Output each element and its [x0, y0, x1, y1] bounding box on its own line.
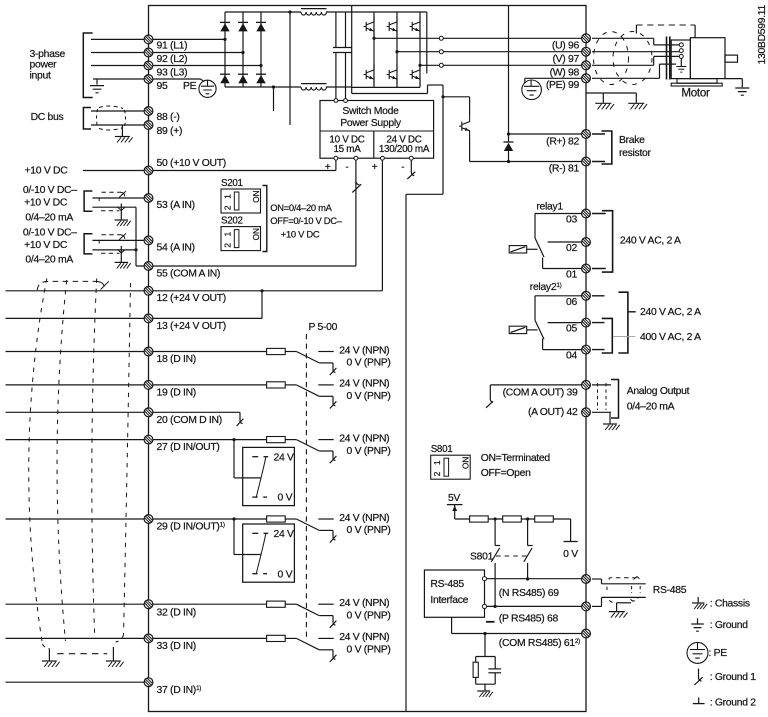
- svg-text:95: 95: [157, 81, 168, 92]
- svg-text:0 V: 0 V: [278, 569, 293, 580]
- svg-text:Switch Mode: Switch Mode: [342, 106, 399, 117]
- svg-text:91 (L1): 91 (L1): [157, 41, 188, 52]
- svg-text:15 mA: 15 mA: [333, 144, 361, 155]
- svg-text:240 V AC, 2 A: 240 V AC, 2 A: [640, 307, 701, 318]
- svg-text:S801: S801: [470, 552, 494, 563]
- svg-text:05: 05: [566, 324, 577, 335]
- svg-text:+10 V DC: +10 V DC: [281, 228, 320, 239]
- svg-text:Interface: Interface: [430, 595, 468, 606]
- svg-text:-: -: [345, 162, 348, 173]
- svg-text:(COM A OUT) 39: (COM A OUT) 39: [503, 388, 578, 399]
- svg-text:24 V: 24 V: [274, 529, 295, 540]
- svg-text:29 (D IN/OUT)1): 29 (D IN/OUT)1): [157, 522, 225, 533]
- svg-text:0/-10 V DC–: 0/-10 V DC–: [23, 185, 77, 196]
- svg-text:(R-) 81: (R-) 81: [549, 164, 580, 175]
- svg-text:0 V (PNP): 0 V (PNP): [347, 446, 391, 457]
- svg-text:ON=0/4–20 mA: ON=0/4–20 mA: [270, 202, 332, 213]
- svg-text:06: 06: [566, 297, 577, 308]
- svg-text:0/4–20 mA: 0/4–20 mA: [25, 212, 73, 223]
- svg-text:1: 1: [432, 460, 442, 465]
- svg-text:2: 2: [432, 471, 442, 476]
- svg-text:2: 2: [222, 243, 232, 248]
- svg-text:2: 2: [222, 205, 232, 210]
- svg-text:3-phase: 3-phase: [30, 49, 66, 60]
- svg-text:12 (+24 V OUT): 12 (+24 V OUT): [157, 293, 226, 304]
- svg-text:ON: ON: [252, 228, 261, 240]
- svg-text:: PE: : PE: [709, 648, 728, 659]
- svg-text:01: 01: [566, 270, 577, 281]
- svg-text:400 V AC, 2 A: 400 V AC, 2 A: [640, 332, 701, 343]
- svg-text:0 V (PNP): 0 V (PNP): [347, 391, 391, 402]
- svg-text:0 V (PNP): 0 V (PNP): [347, 358, 391, 369]
- svg-text:input: input: [30, 71, 51, 82]
- svg-text:19 (D IN): 19 (D IN): [157, 388, 196, 399]
- svg-text:53 (A IN): 53 (A IN): [157, 200, 195, 211]
- svg-text:(V) 97: (V) 97: [553, 54, 580, 65]
- svg-text:(A OUT) 42: (A OUT) 42: [528, 407, 578, 418]
- svg-text:(R+) 82: (R+) 82: [546, 136, 579, 147]
- svg-text:50 (+10 V OUT): 50 (+10 V OUT): [157, 158, 226, 169]
- svg-text:relay1: relay1: [536, 201, 563, 212]
- svg-text:0 V: 0 V: [563, 549, 578, 560]
- svg-text:32 (D IN): 32 (D IN): [157, 607, 196, 618]
- svg-text:54 (A IN): 54 (A IN): [157, 243, 195, 254]
- svg-text:(U) 96: (U) 96: [552, 40, 580, 51]
- svg-text:RS-485: RS-485: [430, 579, 464, 590]
- svg-text:0/4–20 mA: 0/4–20 mA: [25, 255, 73, 266]
- svg-text:S801: S801: [431, 444, 453, 455]
- svg-text:+: +: [372, 162, 378, 173]
- svg-text:+10 V DC: +10 V DC: [25, 165, 69, 176]
- svg-text:130BD599.11: 130BD599.11: [757, 4, 768, 64]
- svg-text:(N RS485) 69: (N RS485) 69: [499, 588, 559, 599]
- svg-text:+: +: [325, 162, 331, 173]
- svg-text:ON: ON: [462, 457, 471, 469]
- svg-text:(P RS485) 68: (P RS485) 68: [499, 614, 559, 625]
- svg-text:+10 V DC: +10 V DC: [24, 240, 68, 251]
- svg-text:(PE) 99: (PE) 99: [546, 80, 580, 91]
- svg-text:: Ground 2: : Ground 2: [710, 698, 757, 709]
- svg-text:0 V (PNP): 0 V (PNP): [347, 610, 391, 621]
- svg-text:24 V (NPN): 24 V (NPN): [339, 379, 389, 390]
- svg-text:resistor: resistor: [619, 148, 652, 159]
- svg-text:04: 04: [566, 351, 577, 362]
- svg-text:: Ground 1: : Ground 1: [710, 672, 757, 683]
- svg-text:S201: S201: [221, 178, 243, 189]
- svg-text:0/4–20 mA: 0/4–20 mA: [627, 401, 675, 412]
- svg-text:: Ground: : Ground: [710, 620, 749, 631]
- svg-text:ON=Terminated: ON=Terminated: [481, 453, 551, 464]
- svg-text:18 (D IN): 18 (D IN): [157, 354, 196, 365]
- svg-text:0 V (PNP): 0 V (PNP): [347, 645, 391, 656]
- svg-text:S202: S202: [221, 216, 243, 227]
- svg-text:-: -: [401, 162, 404, 173]
- svg-text:24 V (NPN): 24 V (NPN): [339, 598, 389, 609]
- svg-text:Analog Output: Analog Output: [627, 386, 690, 397]
- svg-text:1: 1: [222, 232, 232, 237]
- svg-text:37 (D IN)1): 37 (D IN)1): [157, 685, 202, 696]
- svg-text:OFF=Open: OFF=Open: [481, 468, 531, 479]
- svg-text:24 V: 24 V: [274, 452, 295, 463]
- svg-text:03: 03: [566, 215, 577, 226]
- svg-text:5V: 5V: [448, 493, 460, 504]
- svg-text:24 V (NPN): 24 V (NPN): [339, 345, 389, 356]
- svg-text:24 V (NPN): 24 V (NPN): [339, 632, 389, 643]
- svg-text:24 V (NPN): 24 V (NPN): [339, 433, 389, 444]
- svg-text:20 (COM D IN): 20 (COM D IN): [157, 415, 222, 426]
- svg-text:27 (D IN/OUT): 27 (D IN/OUT): [157, 442, 220, 453]
- svg-text:1: 1: [222, 194, 232, 199]
- svg-text:(W) 98: (W) 98: [550, 67, 580, 78]
- svg-text:92 (L2): 92 (L2): [157, 54, 188, 65]
- svg-text:88 (-): 88 (-): [157, 112, 180, 123]
- svg-text:OFF=0/-10 V DC–: OFF=0/-10 V DC–: [270, 215, 342, 226]
- svg-text:(COM RS485) 612): (COM RS485) 612): [499, 638, 580, 649]
- svg-text:93 (L3): 93 (L3): [157, 67, 188, 78]
- svg-text:02: 02: [566, 243, 577, 254]
- svg-text:Brake: Brake: [619, 135, 645, 146]
- svg-text:13 (+24 V OUT): 13 (+24 V OUT): [157, 321, 226, 332]
- svg-text:89 (+): 89 (+): [157, 126, 183, 137]
- svg-text:130/200 mA: 130/200 mA: [379, 144, 430, 155]
- svg-text:ON: ON: [252, 190, 261, 202]
- svg-text:PE: PE: [183, 81, 197, 92]
- svg-text:0 V (PNP): 0 V (PNP): [347, 525, 391, 536]
- svg-text:240 V AC, 2 A: 240 V AC, 2 A: [620, 236, 681, 247]
- svg-text:33 (D IN): 33 (D IN): [157, 641, 196, 652]
- svg-text:Power Supply: Power Supply: [340, 118, 402, 129]
- svg-text:RS-485: RS-485: [653, 585, 687, 596]
- svg-text:24 V (NPN): 24 V (NPN): [339, 513, 389, 524]
- svg-text:DC bus: DC bus: [31, 112, 64, 123]
- svg-text:0/-10 V DC–: 0/-10 V DC–: [23, 227, 77, 238]
- svg-text:: Chassis: : Chassis: [710, 599, 750, 610]
- svg-text:+10 V DC: +10 V DC: [24, 197, 68, 208]
- svg-text:Motor: Motor: [681, 87, 710, 100]
- svg-text:55 (COM A IN): 55 (COM A IN): [157, 268, 221, 279]
- svg-text:power: power: [30, 60, 58, 71]
- svg-text:P 5-00: P 5-00: [309, 322, 338, 333]
- svg-text:0 V: 0 V: [278, 493, 293, 504]
